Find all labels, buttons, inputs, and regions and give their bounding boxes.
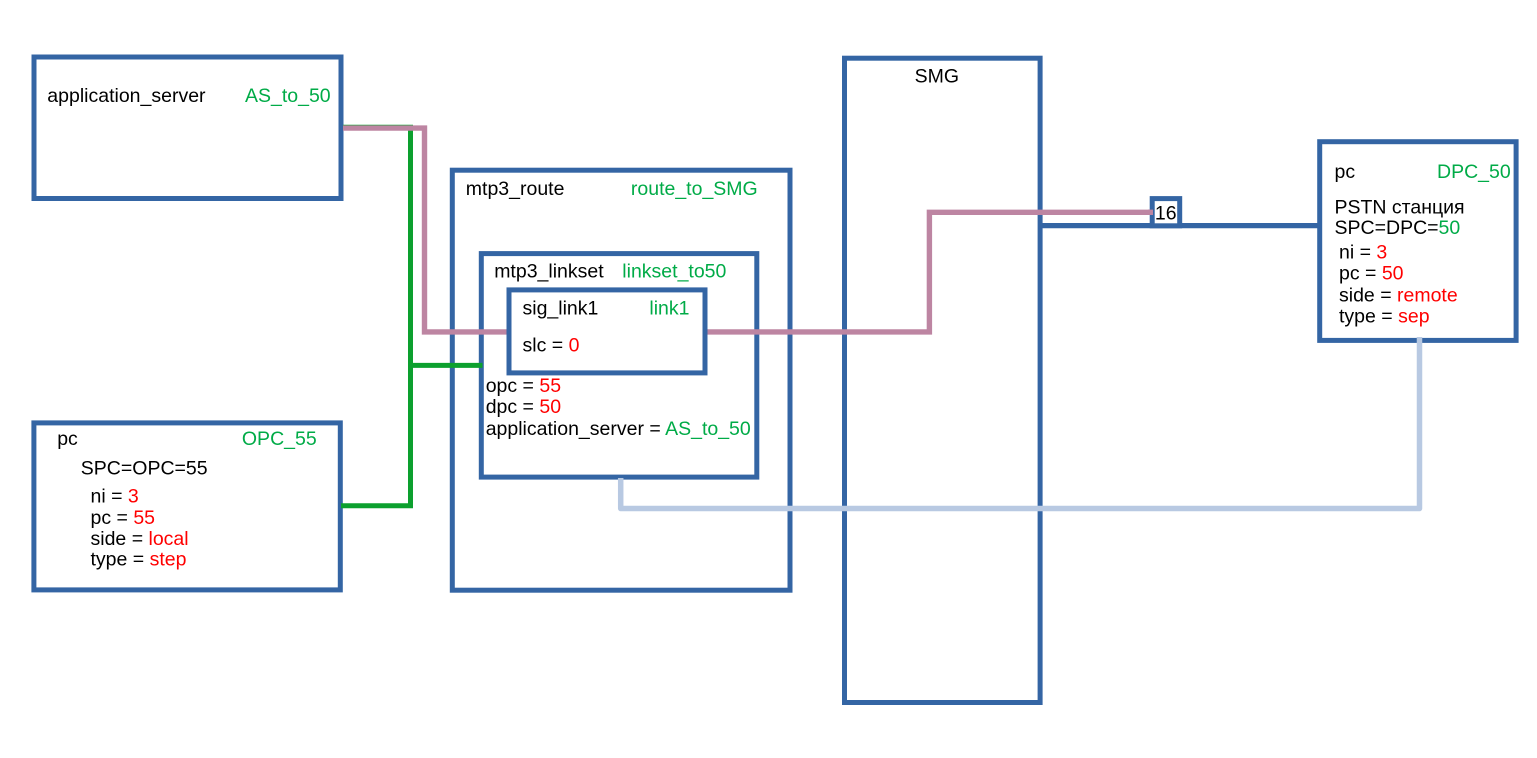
svg-text:type = sep: type = sep: [1339, 305, 1430, 327]
svg-text:ni = 3: ni = 3: [91, 485, 139, 507]
svg-text:16: 16: [1155, 203, 1177, 225]
svg-text:sig_link1: sig_link1: [523, 298, 599, 320]
wire pink sig_link1 to port 16: [708, 212, 1153, 332]
svg-text:type = step: type = step: [91, 549, 187, 571]
svg-text:SPC=OPC=55: SPC=OPC=55: [81, 457, 208, 479]
svg-text:linkset_to50: linkset_to50: [622, 260, 726, 282]
svg-text:pc: pc: [57, 428, 78, 450]
svg-text:SMG: SMG: [915, 65, 959, 87]
wire blue SMG to pc DPC_50: [1039, 223, 1321, 228]
svg-text:dpc = 50: dpc = 50: [486, 396, 562, 418]
box sig_link1: [509, 290, 705, 373]
svg-text:side = remote: side = remote: [1339, 284, 1458, 306]
wire green application_server to pc OPC_55: [341, 127, 411, 506]
svg-text:route_to_SMG: route_to_SMG: [631, 178, 758, 200]
svg-text:pc = 55: pc = 55: [91, 507, 156, 529]
svg-text:pc = 50: pc = 50: [1339, 262, 1404, 284]
svg-text:DPC_50: DPC_50: [1437, 161, 1511, 183]
svg-text:application_server: application_server: [47, 85, 206, 107]
svg-text:side = local: side = local: [91, 528, 189, 550]
wire lightblue mtp3_linkset to pc DPC_50: [621, 337, 1420, 509]
box application_server: [34, 57, 341, 199]
svg-text:slc = 0: slc = 0: [523, 335, 580, 357]
svg-text:mtp3_linkset: mtp3_linkset: [494, 260, 604, 282]
box pc OPC_55: [34, 423, 340, 590]
svg-text:OPC_55: OPC_55: [242, 428, 317, 450]
svg-text:SPC=DPC=50: SPC=DPC=50: [1335, 217, 1461, 239]
svg-text:opc = 55: opc = 55: [486, 375, 562, 397]
wire pink application_server to sig_link1: [343, 128, 507, 332]
box port 16: [1152, 199, 1180, 226]
wire pink overlay at port 16: [1148, 210, 1153, 215]
box mtp3_route: [452, 170, 790, 590]
svg-text:link1: link1: [649, 298, 689, 320]
box pc DPC_50: [1320, 142, 1516, 341]
svg-text:mtp3_route: mtp3_route: [466, 178, 565, 200]
svg-text:application_server = AS_to_50: application_server = AS_to_50: [486, 418, 751, 440]
svg-text:PSTN станция: PSTN станция: [1335, 196, 1465, 218]
wire green branch to mtp3_linkset: [411, 363, 483, 368]
svg-text:pc: pc: [1335, 161, 1356, 183]
box mtp3_linkset: [481, 254, 757, 478]
box SMG: [845, 58, 1041, 702]
svg-text:ni = 3: ni = 3: [1339, 241, 1387, 263]
svg-text:AS_to_50: AS_to_50: [245, 85, 331, 107]
